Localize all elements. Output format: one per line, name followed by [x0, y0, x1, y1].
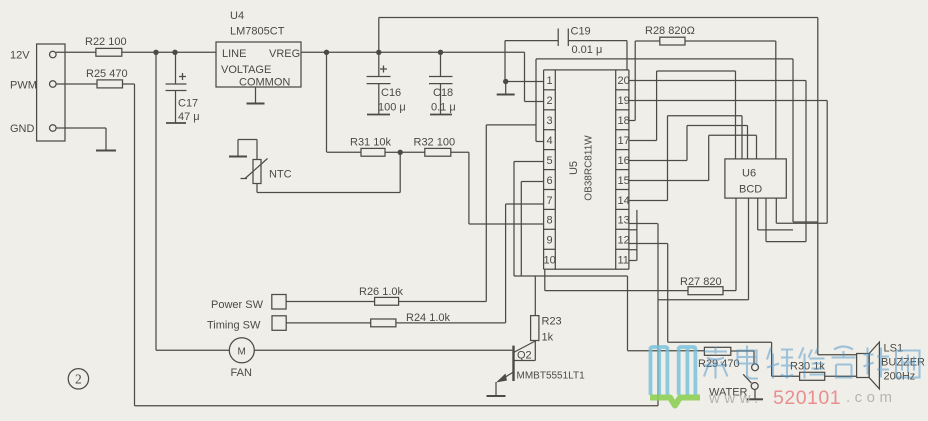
svg-text:8: 8 — [547, 215, 553, 227]
capacitor C18 — [440, 52, 442, 76]
capacitor C17 — [175, 52, 177, 84]
resistor R26 — [375, 297, 399, 305]
wire node D down to NTC — [399, 152, 401, 192]
regulator U4 LM7805CT — [216, 42, 301, 87]
svg-text:.com: .com — [846, 389, 897, 406]
wire R32 to U5 pin 8 — [451, 151, 469, 153]
ground node E — [505, 82, 507, 95]
wire C19 left down to node E — [504, 41, 506, 82]
svg-text:2: 2 — [75, 372, 82, 387]
wire C19 right to U5 pin 20 — [626, 41, 628, 70]
svg-text:16: 16 — [618, 155, 630, 167]
svg-text:FAN: FAN — [231, 367, 252, 379]
wire R22 to node A — [122, 51, 156, 53]
svg-text:R24 1.0k: R24 1.0k — [406, 312, 451, 324]
resistor R25 — [97, 80, 123, 88]
svg-text:R22 100: R22 100 — [85, 36, 127, 48]
resistor R24 — [371, 319, 396, 327]
svg-text:2: 2 — [547, 95, 553, 107]
svg-text:LM7805CT: LM7805CT — [230, 26, 285, 38]
svg-text:U5: U5 — [568, 161, 580, 175]
svg-text:R28 820Ω: R28 820Ω — [645, 25, 695, 37]
wire top rail down to buzzer — [817, 18, 819, 355]
wire R24 to pin7 riser — [396, 322, 506, 324]
svg-text:47 μ: 47 μ — [178, 111, 200, 123]
wire pin4 net — [535, 59, 537, 142]
svg-text:7: 7 — [547, 195, 553, 207]
svg-text:13: 13 — [618, 215, 630, 227]
wire pin19 net — [629, 100, 827, 102]
resistor R28 — [660, 37, 685, 45]
svg-text:C19: C19 — [571, 26, 591, 38]
wire R27 to U6 — [723, 290, 736, 292]
svg-text:U6: U6 — [742, 168, 756, 180]
svg-text:LS1: LS1 — [884, 343, 904, 355]
svg-text:C18: C18 — [433, 87, 453, 99]
watermark chinese characters — [704, 346, 920, 379]
wire node E to U5 pin 1 — [506, 81, 544, 83]
resistor R23 — [531, 316, 539, 341]
svg-text:R30 1k: R30 1k — [790, 361, 825, 373]
wire node A down to FAN — [155, 52, 157, 350]
svg-text:PWM: PWM — [10, 80, 37, 92]
svg-text:R31 10k: R31 10k — [350, 137, 391, 149]
watermark book base (green) — [650, 398, 700, 406]
wire R30 to buzzer — [825, 375, 857, 377]
svg-text:C16: C16 — [381, 87, 401, 99]
wire R23 feed — [534, 276, 536, 316]
node E junction — [503, 79, 508, 84]
svg-text:12V: 12V — [10, 50, 30, 62]
transistor Q2 base bar — [512, 346, 514, 381]
wire node A to U4 — [156, 51, 216, 53]
svg-text:4: 4 — [547, 135, 553, 147]
svg-text:Power SW: Power SW — [211, 299, 264, 311]
svg-text:1: 1 — [547, 75, 553, 87]
svg-text:9: 9 — [547, 235, 553, 247]
wire PWM to R25 — [56, 83, 97, 85]
svg-text:R27 820: R27 820 — [680, 276, 722, 288]
resistor R31 — [361, 148, 385, 156]
wire R23 to Q2 collector — [534, 341, 536, 361]
wire R25 down-left rail — [123, 83, 135, 85]
wire pin12 net — [629, 243, 668, 245]
svg-text:10: 10 — [544, 255, 556, 267]
switch WATER — [752, 364, 759, 371]
wire TimingSW to R24 — [286, 322, 371, 324]
svg-text:17: 17 — [618, 135, 630, 147]
wire pin17 net — [629, 140, 657, 142]
svg-text:MMBT5551LT1: MMBT5551LT1 — [517, 371, 586, 382]
ground WATER — [754, 390, 756, 400]
svg-text:0.01 μ: 0.01 μ — [572, 44, 603, 56]
capacitor C16 — [378, 52, 380, 76]
wire pin5 net — [514, 161, 544, 163]
svg-text:LINE: LINE — [222, 48, 246, 60]
svg-text:100 μ: 100 μ — [378, 102, 406, 114]
svg-text:R25 470: R25 470 — [86, 68, 128, 80]
svg-text:18: 18 — [618, 115, 630, 127]
wire node D to R32 — [400, 151, 425, 153]
svg-text:VREG: VREG — [269, 48, 300, 60]
transistor Q2 emitter — [498, 372, 514, 382]
node C18 junction — [438, 50, 443, 55]
wire R28 right to U6 — [685, 40, 776, 42]
resistor R32 — [425, 148, 451, 156]
watermark book icon — [651, 347, 696, 393]
wire 12V to R22 — [56, 51, 96, 53]
resistor R30 — [800, 372, 825, 380]
svg-text:R23: R23 — [542, 316, 562, 328]
wire pin13 net — [629, 223, 658, 225]
wire rail to U5 pin 2 — [524, 52, 526, 101]
svg-text:15: 15 — [618, 175, 630, 187]
ground Q2 emitter — [495, 382, 497, 396]
wire pin14 net — [629, 200, 668, 202]
node VREG junction — [324, 50, 329, 55]
svg-text:6: 6 — [547, 175, 553, 187]
svg-text:520101: 520101 — [773, 387, 841, 409]
wire R31 to node D — [385, 151, 400, 153]
svg-text:COMMON: COMMON — [239, 77, 290, 89]
node C16 junction — [376, 50, 381, 55]
figure number 2 — [68, 369, 88, 389]
svg-text:R32 100: R32 100 — [414, 137, 456, 149]
IC U6 BCD — [725, 159, 786, 198]
wire pin11 net to R29 — [629, 260, 637, 262]
wire R29 to water switch — [731, 350, 754, 352]
svg-text:20: 20 — [618, 75, 630, 87]
svg-text:M: M — [238, 346, 246, 357]
svg-text:U4: U4 — [230, 10, 244, 22]
svg-text:0.1 μ: 0.1 μ — [431, 102, 456, 114]
wire R26 up to pin4 net — [399, 301, 487, 303]
svg-text:www.: www. — [708, 390, 763, 407]
svg-text:5: 5 — [547, 155, 553, 167]
wire pin7 net — [506, 203, 544, 205]
wire extended cell edge pins 11-13 — [636, 210, 638, 261]
node B junction (C17 tap) — [172, 50, 177, 55]
node A junction — [153, 50, 158, 55]
thermistor NTC — [253, 160, 261, 184]
wire bottom rail — [135, 405, 659, 407]
wire U4 VREG output rail — [301, 51, 525, 53]
wire pin6 net — [521, 181, 543, 183]
svg-text:GND: GND — [10, 123, 35, 135]
switch Timing SW pad — [272, 316, 286, 331]
IC U5 OB38RC811W — [555, 70, 615, 269]
motor M FAN — [229, 338, 254, 363]
svg-text:11: 11 — [618, 255, 629, 267]
node D junction — [398, 150, 403, 155]
svg-text:Timing SW: Timing SW — [207, 320, 261, 332]
svg-text:1k: 1k — [542, 332, 554, 344]
connector J1 (12V/PWM/GND) — [37, 44, 65, 141]
watermark url text — [708, 387, 897, 409]
ground U4 common — [255, 87, 257, 104]
wire PowerSW to R26 — [286, 301, 375, 303]
wire GND pin to ground — [56, 127, 106, 129]
wire R28 left to U5 pin 18 — [635, 40, 660, 42]
svg-text:BCD: BCD — [739, 184, 762, 196]
resistor R27 — [688, 287, 723, 295]
speaker LS1 BUZZER — [857, 354, 870, 378]
svg-text:19: 19 — [618, 95, 630, 107]
wire FAN to Q2 base — [254, 349, 512, 351]
capacitor C19 — [505, 40, 558, 42]
wire R31 left — [327, 151, 361, 153]
svg-text:12: 12 — [618, 235, 630, 247]
wire nest outer — [792, 59, 794, 222]
svg-text:C17: C17 — [178, 98, 198, 110]
svg-text:VOLTAGE: VOLTAGE — [221, 64, 271, 76]
resistor R22 — [96, 48, 122, 56]
resistor R29 — [704, 347, 730, 355]
svg-text:OB38RC811W: OB38RC811W — [584, 135, 595, 201]
wire U6 bottom 2 — [748, 198, 750, 300]
wire under-IC net — [514, 275, 628, 277]
wire pin20 net — [629, 80, 806, 82]
wire pin15 net — [629, 180, 709, 182]
wire pin16 net — [629, 160, 687, 162]
wire riser to top rail — [378, 18, 380, 53]
ground NTC top — [237, 140, 239, 157]
wire VREG down to R31 — [326, 52, 328, 152]
wire top rail — [379, 17, 818, 19]
svg-text:3: 3 — [547, 115, 553, 127]
wire long top net — [536, 58, 793, 60]
wire U6 bottom 3 — [757, 198, 759, 230]
svg-text:R26 1.0k: R26 1.0k — [359, 286, 404, 298]
switch Power SW pad — [272, 295, 286, 310]
svg-text:NTC: NTC — [269, 169, 292, 181]
wire pin10 to R27 — [544, 269, 546, 290]
svg-text:14: 14 — [618, 195, 630, 207]
svg-text:Q2: Q2 — [517, 350, 532, 362]
